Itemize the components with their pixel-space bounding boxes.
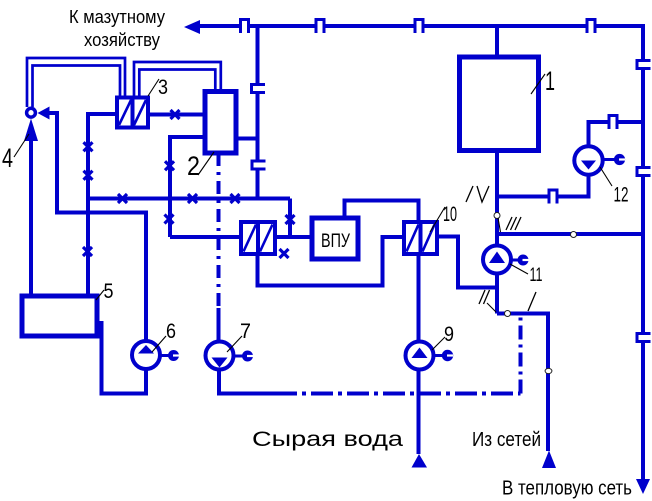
valve: [83, 110, 295, 258]
wire VPU top to HX10 top: [345, 201, 419, 223]
vessel 2: [205, 92, 236, 154]
pump 9: [406, 342, 454, 370]
arrow to fuel-oil facility: [184, 20, 200, 34]
wire HX8 bottom to HX10 left: [258, 237, 405, 286]
wire HX3 left pipe down: [88, 114, 117, 296]
wire pump12 discharge line: [589, 122, 644, 146]
wire HX3 to vessel pipe: [148, 113, 205, 117]
wire pump11 bottom pipe: [495, 274, 499, 314]
wire tank5 to pump6: [97, 323, 146, 394]
numeral II: [479, 290, 490, 304]
burner 4: [24, 107, 50, 142]
wire vessel blowdown dash-dot: [217, 153, 221, 308]
pump 12: [574, 146, 625, 174]
svg-text:1: 1: [545, 66, 555, 96]
roman numeral pipeline labels: [466, 186, 536, 311]
wire right main down pipe: [641, 26, 645, 479]
heat exchanger 8: [241, 222, 275, 254]
svg-text:6: 6: [166, 320, 176, 343]
pump 7: [206, 342, 254, 370]
heat exchanger 3: [117, 98, 148, 128]
wire condensate header: [88, 197, 290, 201]
heat exchanger 10: [404, 222, 437, 254]
wire pump9 bottom raw water inlet: [417, 370, 421, 455]
wire drop with valve to VPU feed: [288, 199, 292, 238]
svg-text:2: 2: [187, 151, 200, 181]
wire from-networks line: [497, 314, 548, 452]
steam loop B to vessel (double line): [134, 62, 221, 98]
svg-text:В тепловую сеть: В тепловую сеть: [502, 478, 632, 500]
tank 5: [22, 296, 97, 336]
steam loop A to burner (double line): [27, 58, 125, 107]
wire pump7 bottom pipe: [219, 370, 275, 394]
water treatment unit VPU: [312, 218, 358, 259]
wire burner drain to tank5: [29, 140, 33, 296]
svg-text:ВПУ: ВПУ: [321, 231, 351, 252]
wire to HX8 left: [170, 235, 241, 239]
svg-text:Из сетей: Из сетей: [472, 429, 541, 451]
numeral III: [506, 217, 521, 230]
wire recirculation dash-dot vertical: [519, 314, 523, 394]
svg-text:4: 4: [2, 143, 13, 173]
wire steam drop to vessel: [256, 26, 260, 199]
numeral I: [528, 292, 536, 311]
boiler 1: [460, 57, 539, 151]
component number labels: [2, 66, 629, 346]
svg-text:Сырая вода: Сырая вода: [252, 428, 403, 451]
wire main steam header: [200, 24, 645, 28]
leader lines: [14, 74, 612, 352]
svg-text:10: 10: [443, 203, 457, 226]
svg-text:5: 5: [104, 280, 114, 303]
expansion loop symbols on vertical pipes: [252, 61, 651, 342]
arrow raw water: [412, 454, 428, 468]
wire recirculation dash-dot horizontal: [275, 392, 521, 396]
wire vessel left lower pipe: [170, 137, 205, 237]
numeral IV: [466, 186, 489, 202]
pump 11: [483, 246, 529, 274]
wire to pump7 top: [217, 308, 221, 342]
svg-text:3: 3: [158, 76, 168, 99]
arrow from networks: [542, 451, 556, 469]
expansion loop symbols on horizontal pipes: [241, 20, 618, 204]
wire boiler downcomer: [495, 150, 499, 246]
wire vessel right steam connection: [236, 137, 258, 141]
svg-text:К мазутному: К мазутному: [69, 7, 165, 27]
wire pump12 suction line: [497, 175, 589, 197]
svg-text:9: 9: [444, 323, 454, 346]
arrow to heating network: [636, 479, 650, 494]
pump 6: [132, 341, 179, 369]
svg-text:хозяйству: хозяйству: [84, 30, 160, 50]
wire boiler top pipe: [495, 26, 499, 57]
wire raw water riser: [417, 254, 421, 342]
svg-text:7: 7: [240, 320, 251, 343]
svg-text:12: 12: [614, 184, 629, 207]
wire HX10 right to pump11 suction: [437, 237, 497, 288]
wire HX8 right to VPU: [275, 235, 312, 239]
svg-text:11: 11: [530, 265, 543, 286]
node circles (pipeline tap points): [494, 213, 577, 374]
wire burner feed line: [50, 113, 147, 341]
wire boiler water line IV to right: [497, 232, 643, 236]
